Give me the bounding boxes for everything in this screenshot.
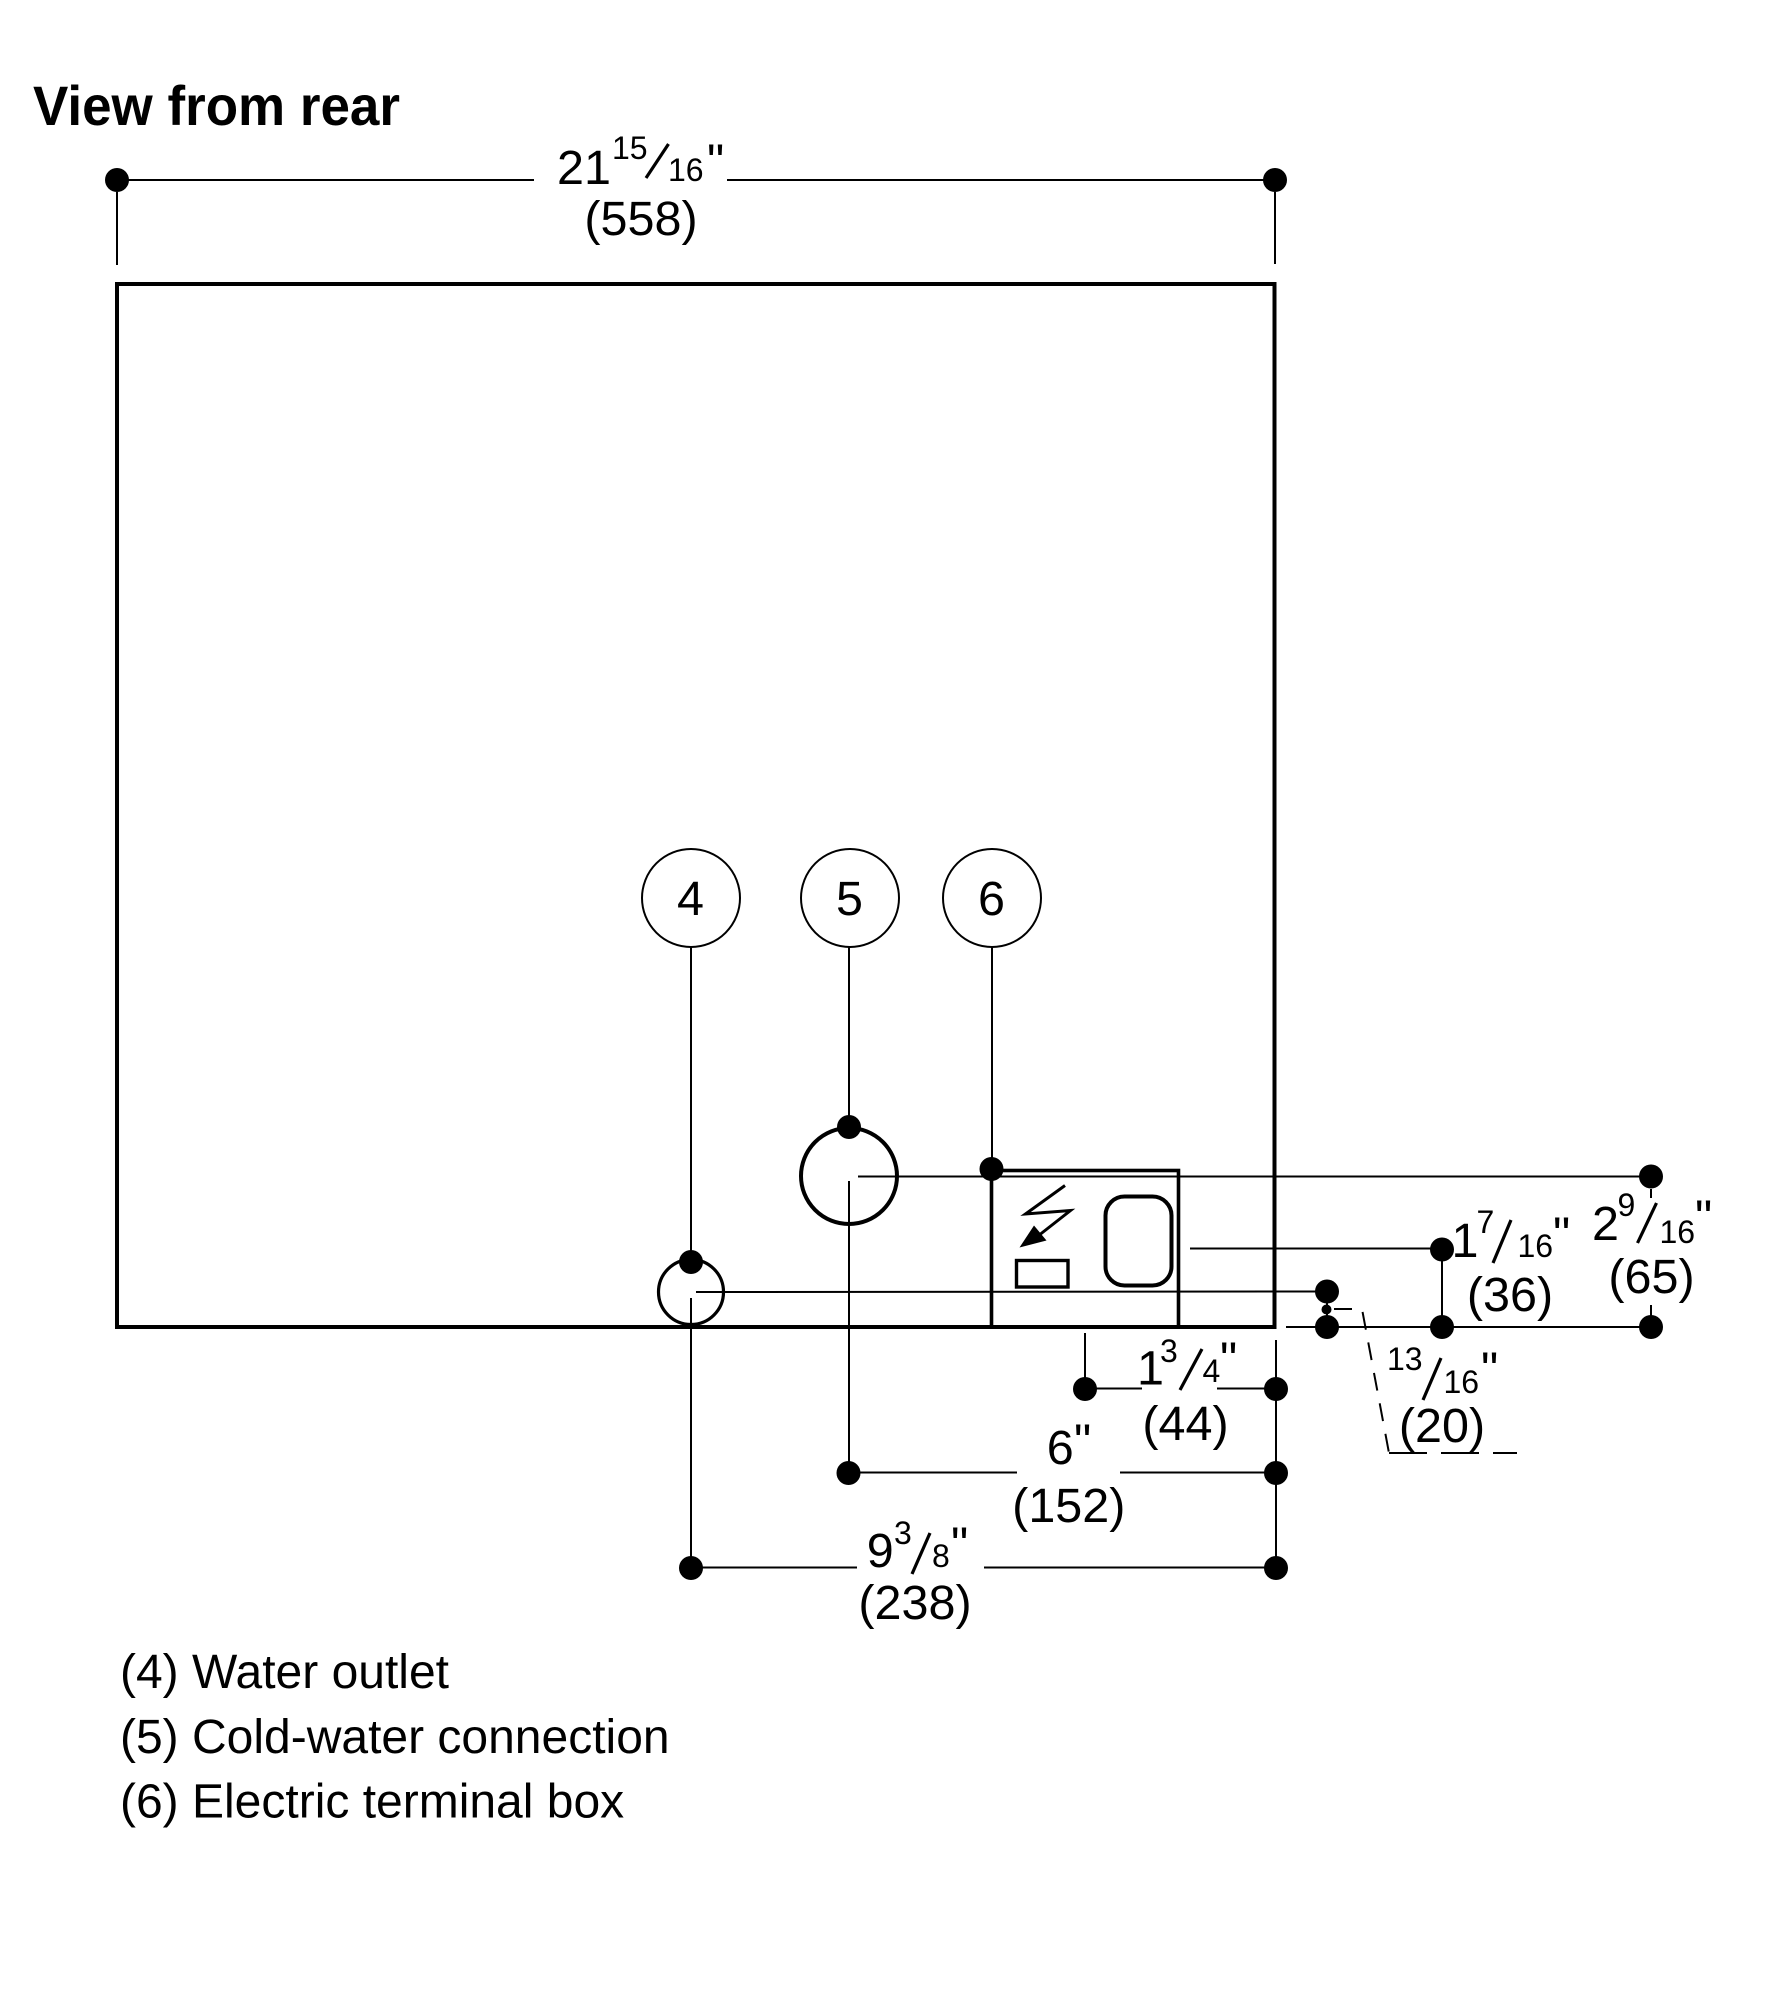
wire cold-water horizontal line to right bbox=[858, 1176, 1651, 1178]
callout circle 6 bbox=[943, 849, 1041, 947]
dimension 2 9/16 (65) bbox=[1650, 1189, 1652, 1316]
svg-text:4: 4 bbox=[1203, 1353, 1221, 1389]
svg-text:(6) Electric terminal box: (6) Electric terminal box bbox=[120, 1776, 624, 1829]
dimension 1 3/4 (44) bbox=[1085, 1333, 1276, 1569]
callout circle 4 bbox=[642, 849, 740, 947]
svg-text:21: 21 bbox=[557, 141, 611, 195]
wire leader resume below water circle center bbox=[690, 1298, 692, 1568]
svg-text:7: 7 bbox=[1477, 1204, 1495, 1240]
wire vertical segment bbox=[1441, 1250, 1443, 1328]
node small dot bbox=[1322, 1305, 1332, 1315]
dimension 21 15/16 (558) overall width bbox=[117, 180, 1275, 265]
node dot left bbox=[837, 1461, 861, 1485]
svg-text:": " bbox=[1481, 1343, 1498, 1397]
value label 9 3/8" (238) bbox=[858, 1515, 971, 1630]
svg-text:4: 4 bbox=[677, 872, 704, 926]
small terminal rectangle bbox=[1017, 1261, 1069, 1288]
dimension 6 (152) bbox=[849, 1472, 1277, 1474]
svg-text:6: 6 bbox=[978, 872, 1005, 926]
water outlet circle (4) bbox=[659, 1260, 724, 1325]
node dot right end of water line bbox=[1315, 1280, 1339, 1304]
rounded cable grommet bbox=[1106, 1197, 1172, 1286]
dimension 1 7/16 (36) bbox=[1190, 1249, 1442, 1328]
wire leader from circle 6 down to terminal box bbox=[991, 947, 993, 1169]
wire leader from circle 5 down to 6 inch dim bbox=[848, 947, 850, 1128]
wire extension left bbox=[116, 192, 118, 265]
node dot on cold-water circle bbox=[837, 1115, 861, 1139]
wire extension right bbox=[1274, 192, 1276, 264]
svg-text:5: 5 bbox=[836, 872, 863, 926]
value label 1 3/4" (44) bbox=[1137, 1333, 1237, 1451]
svg-text:3: 3 bbox=[894, 1515, 912, 1551]
svg-text:(238): (238) bbox=[858, 1576, 971, 1630]
svg-text:15: 15 bbox=[612, 130, 648, 166]
svg-text:2: 2 bbox=[1592, 1197, 1619, 1251]
wire dim line from box to dot bbox=[1190, 1248, 1442, 1250]
wire dashed leader for 13/16 (20) bbox=[1334, 1309, 1389, 1453]
node dot left bbox=[1315, 1315, 1339, 1339]
wire tick below top dot bbox=[1650, 1189, 1652, 1198]
wire water outlet horizontal line bbox=[696, 1291, 1327, 1294]
wire right extension full bbox=[1275, 1340, 1277, 1569]
node dot right bbox=[1264, 1461, 1288, 1485]
svg-text:": " bbox=[1553, 1208, 1570, 1262]
value label 13/16" (20) bbox=[1387, 1341, 1498, 1453]
svg-text:6: 6 bbox=[1047, 1421, 1074, 1475]
svg-text:13: 13 bbox=[1387, 1341, 1423, 1377]
svg-text:8: 8 bbox=[932, 1538, 950, 1574]
node dot right bbox=[1264, 1377, 1288, 1401]
value label 2 9/16" (65) bbox=[1592, 1187, 1712, 1304]
wire dim line right segment bbox=[727, 179, 1275, 181]
svg-text:": " bbox=[707, 135, 724, 189]
node dot on box corner bbox=[980, 1157, 1004, 1181]
node dot middle bbox=[1430, 1315, 1454, 1339]
wire leader resume below cold circle center bbox=[848, 1181, 850, 1473]
dimension 9 3/8 (238) bbox=[691, 1567, 1276, 1569]
wire left extension bbox=[1084, 1333, 1086, 1389]
svg-text:16: 16 bbox=[1660, 1214, 1696, 1250]
wire short vertical between water dot and bottom line bbox=[1326, 1292, 1328, 1328]
svg-text:": " bbox=[1220, 1333, 1237, 1387]
svg-text:1: 1 bbox=[1452, 1214, 1479, 1268]
electric terminal box (6) bbox=[992, 1171, 1179, 1328]
node dot right bbox=[1639, 1315, 1663, 1339]
svg-text:": " bbox=[1074, 1415, 1091, 1469]
svg-text:(152): (152) bbox=[1012, 1479, 1125, 1533]
svg-text:": " bbox=[1695, 1191, 1712, 1245]
node dot left bbox=[1073, 1377, 1097, 1401]
node left end dot bbox=[105, 168, 129, 192]
svg-text:(44): (44) bbox=[1142, 1397, 1228, 1451]
svg-text:16: 16 bbox=[668, 152, 704, 188]
svg-text:(65): (65) bbox=[1608, 1250, 1694, 1304]
wire leader from circle 4 down to 9 3/8 dim bbox=[690, 947, 692, 1263]
node dot top bbox=[1430, 1238, 1454, 1262]
svg-text:3: 3 bbox=[1160, 1333, 1178, 1369]
svg-text:(20): (20) bbox=[1399, 1399, 1485, 1453]
wire bottom right horizontal line bbox=[1286, 1326, 1651, 1328]
callout circle 5 bbox=[801, 849, 899, 947]
value label 6" (152) bbox=[1012, 1415, 1125, 1533]
cold-water connection circle (5) bbox=[801, 1128, 897, 1224]
node dot right bbox=[1264, 1556, 1288, 1580]
svg-text:(36): (36) bbox=[1467, 1268, 1553, 1322]
svg-text:(4) Water outlet: (4) Water outlet bbox=[120, 1646, 449, 1699]
node dot left bbox=[679, 1556, 703, 1580]
svg-text:(558): (558) bbox=[584, 192, 697, 246]
wire tick above bottom dot bbox=[1650, 1305, 1652, 1316]
appliance outline rectangle bbox=[117, 284, 1275, 1327]
wire dim segments bbox=[1085, 1388, 1142, 1390]
svg-text:16: 16 bbox=[1518, 1228, 1554, 1264]
node right end dot bbox=[1263, 168, 1287, 192]
value label 1 7/16" (36) bbox=[1452, 1204, 1571, 1322]
node dot top of 2 9/16 dim bbox=[1639, 1165, 1663, 1189]
svg-text:(5) Cold-water connection: (5) Cold-water connection bbox=[120, 1711, 670, 1764]
svg-text:16: 16 bbox=[1444, 1364, 1480, 1400]
svg-text:9: 9 bbox=[1618, 1187, 1636, 1223]
svg-text:View from rear: View from rear bbox=[33, 74, 400, 137]
svg-text:": " bbox=[951, 1518, 968, 1572]
lightning bolt arrow bbox=[1026, 1186, 1071, 1237]
wire dim line left segment bbox=[117, 179, 534, 181]
node dot on water outlet bbox=[679, 1250, 703, 1274]
value label 21 15/16" (558) bbox=[557, 130, 724, 246]
svg-text:9: 9 bbox=[867, 1524, 894, 1578]
